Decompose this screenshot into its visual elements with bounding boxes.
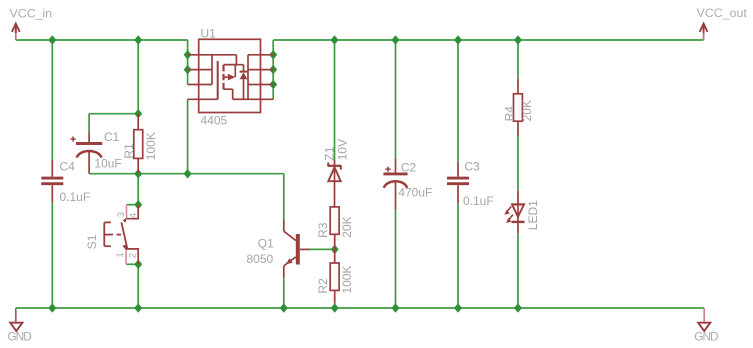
junction top rail C2 (392, 35, 400, 45)
wire LED1 to GND vertical (517, 234, 519, 308)
svg-text:Q1: Q1 (258, 237, 274, 251)
wire R1 top vertical (137, 40, 139, 114)
switch S1 (104, 205, 138, 265)
resistor R2 (330, 249, 339, 303)
wire C2 top vertical (395, 40, 397, 159)
wire S1 pin3 stub (126, 204, 138, 206)
wire C2 bottom vertical (395, 209, 397, 308)
zener diode Z1 (328, 160, 341, 207)
supply arrow VCC_in (12, 24, 20, 40)
junction top rail R4 (514, 35, 522, 45)
junction node R1 bottom (134, 169, 142, 179)
svg-text:R4: R4 (503, 106, 517, 122)
junction top rail C4 (48, 35, 56, 45)
junction bottom rail R2 (331, 303, 339, 313)
svg-text:100K: 100K (144, 132, 158, 160)
junction bottom rail C4 (48, 303, 56, 313)
junction bottom rail C3 (454, 303, 462, 313)
svg-text:GND: GND (8, 330, 32, 344)
ground symbol left (10, 308, 22, 331)
wire Z1 top vertical (334, 40, 336, 160)
junction S1 top (134, 200, 142, 210)
junction bottom rail C2 (392, 303, 400, 313)
svg-text:VCC_out: VCC_out (697, 6, 748, 20)
ground symbol right (698, 308, 710, 331)
wire C1 top horizontal (89, 113, 138, 115)
wire S1 pin1 stub (126, 263, 138, 265)
wire S1 to GND vertical (137, 264, 139, 308)
svg-text:10uF: 10uF (94, 156, 121, 170)
svg-text:C3: C3 (464, 160, 480, 174)
svg-text:R2: R2 (316, 278, 330, 294)
svg-text:C1: C1 (104, 130, 120, 144)
svg-text:470uF: 470uF (398, 185, 432, 199)
resistor R4 (514, 79, 523, 136)
svg-text:U1: U1 (201, 26, 217, 40)
wire GND bottom rail (16, 307, 704, 309)
svg-text:Z1: Z1 (322, 146, 336, 160)
svg-text:20K: 20K (340, 216, 354, 237)
wire gate net horizontal R1 to Q1 collector (138, 173, 284, 175)
wire R4 top vertical (517, 40, 519, 79)
svg-text:VCC_in: VCC_in (10, 7, 53, 21)
wire C3 bottom vertical (457, 204, 459, 309)
wire C4 bottom vertical (51, 203, 53, 309)
supply arrow VCC_out (700, 24, 708, 40)
svg-text:1: 1 (115, 252, 126, 257)
capacitor C1 (71, 133, 103, 174)
svg-text:100K: 100K (340, 266, 354, 294)
junction node gate wire (184, 169, 192, 179)
wire VCC_out top rail right segment (273, 39, 703, 41)
capacitor C2 (383, 159, 407, 209)
wire R4 to LED1 vertical (517, 136, 519, 190)
svg-text:10V: 10V (335, 139, 349, 160)
wire U1 source vertical (187, 40, 189, 85)
wire R1 to S1 vertical (137, 174, 139, 205)
resistor R3 (330, 207, 339, 250)
resistor R1 (134, 114, 143, 174)
svg-text:0.1uF: 0.1uF (60, 190, 91, 204)
svg-text:3: 3 (116, 212, 127, 217)
junction top rail C3 (454, 35, 462, 45)
junction U1 pin6 (269, 80, 277, 90)
wire R2 bottom stub (334, 303, 336, 308)
svg-text:R1: R1 (122, 143, 136, 159)
wire VCC_in top rail left segment (16, 39, 188, 41)
junction top rail R1 (134, 35, 142, 45)
svg-text:C2: C2 (401, 160, 417, 174)
wire C1 bottom horizontal (89, 173, 138, 175)
junction node C1 top (134, 109, 142, 119)
transistor Q1 (284, 220, 310, 277)
svg-text:2: 2 (128, 253, 139, 258)
wire U1 drain vertical (272, 40, 274, 99)
svg-text:R3: R3 (316, 222, 330, 238)
junction node Q1 base divider (331, 245, 339, 255)
wire U1 gate drop (187, 99, 189, 173)
wire Q1 base to divider (310, 248, 335, 250)
junction bottom rail S1 (134, 303, 142, 313)
op-amp U1 MOSFET SO8 body (188, 39, 274, 112)
svg-text:S1: S1 (85, 234, 99, 249)
svg-text:C4: C4 (60, 160, 76, 174)
wire Q1 collector vertical (283, 174, 285, 220)
svg-text:4405: 4405 (201, 113, 228, 127)
svg-text:4: 4 (128, 212, 139, 218)
junction U1 pin1 (184, 50, 192, 60)
junction U1 pin2 (184, 65, 192, 75)
svg-text:LED1: LED1 (526, 200, 540, 230)
svg-text:8050: 8050 (247, 252, 274, 266)
capacitor C4 (41, 160, 63, 203)
svg-text:20K: 20K (520, 100, 534, 121)
junction bottom rail Q1 emitter (280, 303, 288, 313)
wire C3 top vertical (457, 40, 459, 162)
svg-text:GND: GND (694, 330, 718, 344)
junction U1 pin7 (269, 65, 277, 75)
wire Q1 emitter to GND (283, 277, 285, 308)
junction U1 pin8 (269, 50, 277, 60)
junction S1 bottom (134, 260, 142, 270)
junction bottom rail LED1 (514, 303, 522, 313)
LED LED1 (504, 190, 524, 234)
wire C1 top lead drop (88, 114, 90, 133)
junction top rail Z1 (331, 35, 339, 45)
wire C4 top vertical (51, 40, 53, 160)
svg-text:0.1uF: 0.1uF (463, 194, 494, 208)
capacitor C3 (447, 162, 469, 204)
